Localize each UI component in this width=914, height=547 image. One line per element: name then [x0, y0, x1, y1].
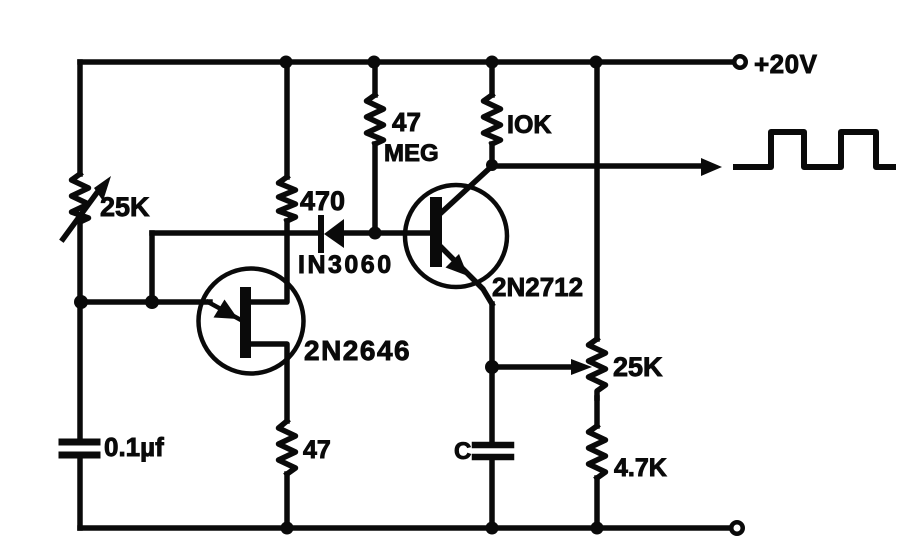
svg-text:IN3060: IN3060 — [298, 251, 394, 279]
svg-text:2N2712: 2N2712 — [492, 272, 583, 302]
node dot collector node — [486, 159, 498, 171]
output arrowhead — [701, 158, 722, 176]
transistor Q2 emitter lead with arrowhead — [441, 247, 492, 304]
node dot top rail at 470 branch — [280, 56, 293, 69]
resistor R2 470 zigzag — [279, 177, 296, 221]
svg-text:25K: 25K — [613, 352, 663, 382]
waveform square wave — [736, 132, 893, 167]
wiper arrowhead — [571, 359, 592, 375]
svg-text:47: 47 — [392, 107, 421, 137]
resistor R7 4.7K zigzag — [589, 426, 606, 478]
svg-text:MEG: MEG — [384, 140, 439, 167]
svg-text:C: C — [454, 438, 471, 465]
wire 47MEG branch upper — [372, 62, 378, 95]
node dot diode line at 47MEG — [369, 227, 382, 240]
node dot bottom rail at C — [486, 522, 499, 535]
UJT Q1 emitter slant with arrowhead — [208, 300, 239, 320]
wire left vertical (middle segment) — [77, 222, 83, 439]
capacitor C2 C top plate — [475, 442, 511, 449]
wire 47 to bottom rail — [284, 474, 290, 528]
rheostat R1 arrow — [63, 176, 111, 239]
node dot top rail at 47MEG branch — [368, 56, 381, 69]
rheostat R1 25K zigzag — [72, 174, 89, 222]
wire 4.7K to bottom rail — [594, 478, 600, 528]
wire bottom rail — [80, 525, 729, 531]
wire 47MEG to base node — [372, 144, 378, 231]
wire left vertical (lower segment) — [77, 458, 83, 528]
node dot bottom rail at 47 — [281, 522, 294, 535]
resistor R3 47 zigzag — [279, 421, 296, 474]
svg-text:+20V: +20V — [754, 49, 818, 79]
wire 470 to UJT base2 — [252, 221, 287, 302]
wire Q2 emitter vertical — [489, 304, 495, 442]
wire right branch upper — [594, 62, 600, 339]
potentiometer R6 25K zigzag — [589, 339, 606, 398]
resistor R4 47MEG zigzag — [367, 95, 384, 144]
svg-text:2N2646: 2N2646 — [304, 335, 411, 366]
transistor Q2 2N2712 base bar — [430, 197, 442, 267]
node dot top rail at right branch — [590, 56, 603, 69]
capacitor C1 0.1uf bottom plate — [62, 452, 97, 459]
svg-text:0.1µf: 0.1µf — [104, 432, 164, 462]
wire horizontal diode/base line — [152, 230, 318, 236]
wire vertical from diode line to emitter line — [149, 233, 155, 302]
capacitor C1 0.1uf top plate — [62, 439, 97, 446]
svg-text:25K: 25K — [100, 192, 150, 222]
capacitor C2 C bottom plate — [475, 454, 511, 461]
node dot emitter/wiper — [485, 360, 499, 374]
wire left vertical (upper segment) — [77, 62, 83, 174]
wire between pot and 4.7K — [594, 398, 600, 426]
UJT Q1 2N2646 base bar — [240, 287, 251, 358]
svg-text:470: 470 — [300, 186, 345, 216]
UJT Q1 2N2646 circle — [199, 269, 304, 374]
wire top supply rail — [80, 59, 732, 65]
node dot emitter line mid — [145, 295, 159, 309]
wire C to bottom rail — [489, 457, 495, 528]
resistor R5 10K zigzag — [484, 95, 501, 144]
wire UJT base1 to 47 resistor — [252, 344, 287, 421]
terminal +20V — [734, 56, 746, 68]
wire 10K branch upper — [489, 62, 495, 95]
svg-text:IOK: IOK — [507, 111, 551, 139]
diode CR1 1N3060 triangle — [324, 219, 344, 248]
transistor Q2 2N2712 circle — [405, 185, 507, 287]
node dot emitter line left — [74, 295, 88, 309]
svg-text:47: 47 — [303, 436, 331, 464]
node dot top rail at 10K branch — [486, 56, 499, 69]
terminal bottom output — [731, 522, 743, 534]
node dot bottom rail at 4.7K — [591, 522, 604, 535]
wire diode anode to Q2 base — [344, 230, 430, 236]
wire output horizontal — [492, 163, 704, 169]
wire 10K to collector node — [489, 144, 495, 165]
svg-text:4.7K: 4.7K — [614, 454, 667, 482]
wire 470/UJT-base2 branch upper — [284, 62, 290, 177]
diode CR1 1N3060 cathode bar — [318, 218, 324, 250]
wire UJT emitter horizontal — [80, 299, 210, 305]
wire wiper arm horizontal — [492, 364, 575, 370]
transistor Q2 collector lead — [442, 166, 492, 212]
